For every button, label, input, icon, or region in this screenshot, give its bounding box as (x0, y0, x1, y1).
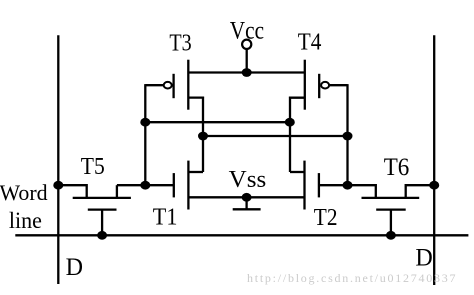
wire T3 drain lead (188, 96, 203, 99)
svg-text:line: line (9, 208, 42, 233)
svg-text:D: D (415, 243, 432, 272)
node B junction (343, 181, 353, 190)
node junction T5 gate on word line (97, 231, 107, 240)
transistor T2 channel (303, 161, 305, 210)
transistor T6 gate bar (376, 208, 406, 210)
transistor T4 channel (304, 60, 306, 110)
wire cross-couple B (T3 drain to T2 gate) (203, 135, 348, 137)
wire T4 gate to node B (329, 84, 347, 86)
transistor T4 gate bar (318, 74, 320, 98)
wire T6 gate stem to word line (390, 210, 392, 236)
wire T1 gate wire (117, 184, 174, 186)
wire node B vertical (346, 84, 348, 185)
node junction cross-couple A left (140, 118, 150, 127)
node junction T6 gate on word line (386, 231, 396, 240)
svg-text:D: D (66, 252, 83, 281)
transistor T4 gate bubble (321, 82, 329, 89)
transistor T5 gate bar (88, 208, 117, 210)
node junction T5 to bit line D (53, 181, 63, 190)
wire T5 left lead to bit line D (58, 185, 86, 198)
transistor T3 gate bubble (164, 82, 172, 89)
wire T1 drain lead (188, 171, 203, 173)
transistor T1 channel (187, 161, 189, 210)
transistor T1 gate bar (173, 173, 175, 197)
svg-text:Vss: Vss (229, 166, 267, 193)
wire word line (15, 234, 468, 236)
wire T3 gate to node A (145, 84, 163, 86)
svg-text:T5: T5 (81, 154, 105, 180)
svg-text:T3: T3 (169, 30, 191, 57)
node A junction (140, 181, 150, 190)
svg-text:T2: T2 (314, 205, 338, 231)
wire Vcc rail (188, 71, 304, 73)
wire bit line D right (433, 35, 435, 285)
svg-text:Vcc: Vcc (230, 18, 264, 45)
node junction cross-couple B right (343, 132, 353, 141)
transistor T5 channel (73, 197, 131, 199)
wire Vcc stem (246, 49, 248, 73)
wire node A vertical (144, 84, 146, 185)
wire cross-couple A (T4 drain to T1 gate) (145, 121, 290, 123)
svg-text:T1: T1 (153, 204, 178, 230)
svg-text:T6: T6 (384, 154, 410, 181)
node junction cross-couple B left (198, 132, 208, 141)
svg-text:http://blog.csdn.net/u01274033: http://blog.csdn.net/u012740337 (247, 271, 456, 285)
wire T5 gate stem to word line (101, 210, 103, 236)
node junction cross-couple A right (285, 118, 295, 127)
transistor T6 channel (362, 197, 420, 199)
node junction Vss (242, 193, 252, 202)
wire T2 drain lead (290, 171, 305, 173)
node junction Vcc rail (242, 68, 252, 77)
transistor T3 channel (187, 60, 189, 110)
wire T6 left lead from node B (348, 185, 376, 198)
wire bit line D left (57, 35, 59, 284)
wire Vss ground stem (245, 197, 247, 209)
node junction T6 to bit line D right (429, 181, 439, 190)
wire T3 drain down to T1 drain (202, 98, 204, 172)
wire T2 gate wire (319, 184, 348, 186)
ground Vss bar (233, 208, 261, 210)
wire T6 right lead to bit line D (406, 185, 435, 198)
wire T4 drain down to T2 drain (289, 98, 291, 172)
wire T5 right lead (116, 185, 118, 198)
transistor T3 gate bar (172, 74, 174, 98)
wire Vss line T1 source to T2 source (188, 196, 304, 198)
svg-text:T4: T4 (298, 28, 322, 55)
svg-text:Word: Word (0, 180, 48, 205)
terminal Vcc open circle (242, 40, 251, 49)
transistor T2 gate bar (318, 173, 320, 197)
wire T4 drain lead (290, 97, 305, 100)
